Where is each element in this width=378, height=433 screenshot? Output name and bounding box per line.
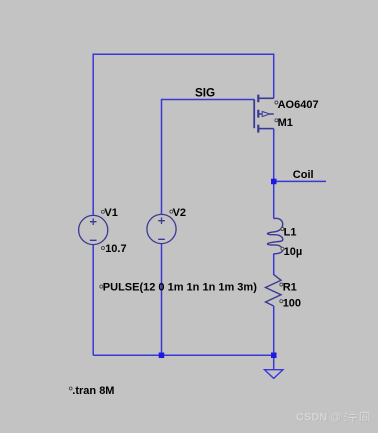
svg-text:100: 100 (283, 298, 301, 310)
wire bottom rail (93, 354, 274, 356)
inductor L1 (267, 218, 282, 253)
ground (265, 370, 283, 379)
channel segment top (257, 95, 259, 103)
svg-text:Coil: Coil (293, 169, 314, 181)
svg-text:PULSE(12 0 1m 1n 1n 1m 3m): PULSE(12 0 1m 1n 1n 1m 3m) (103, 282, 257, 294)
channel segment bottom (257, 125, 259, 133)
label R1 (280, 281, 297, 293)
label V2 value PULSE (100, 282, 257, 294)
voltage source V1 (79, 215, 108, 244)
wire ground stem (273, 355, 275, 369)
channel segment middle (257, 110, 259, 118)
wire left vertical upper (92, 54, 94, 216)
svg-text:L1: L1 (284, 226, 297, 238)
body finger with arrow (258, 113, 273, 115)
node ground junction (271, 353, 277, 359)
transistor M1 (PMOS AO6407) (254, 95, 274, 133)
wire right vertical to drain (273, 54, 275, 99)
wire V2 vertical lower (161, 244, 163, 356)
label AO6407 (275, 99, 319, 111)
wire left vertical lower (92, 245, 94, 356)
label M1 (275, 117, 293, 129)
watermark CSDN (296, 412, 342, 425)
wire V2 vertical upper (161, 99, 163, 215)
voltage source V2 (147, 214, 176, 243)
label V2 (170, 207, 186, 219)
svg-text:R1: R1 (283, 281, 297, 293)
drain finger (258, 97, 273, 99)
node Coil junction (271, 179, 277, 185)
label L1 value 10u (281, 246, 302, 258)
label R1 value 100 (280, 298, 301, 310)
svg-text:SIG: SIG (195, 86, 215, 99)
svg-text:10µ: 10µ (284, 246, 303, 258)
resistor R1 (266, 275, 282, 306)
source finger (258, 128, 273, 130)
svg-text:V1: V1 (104, 207, 117, 219)
svg-text:V2: V2 (173, 207, 186, 219)
svg-text:10.7: 10.7 (105, 243, 126, 255)
svg-text:M1: M1 (278, 117, 293, 129)
label V1 (101, 207, 117, 219)
gate bar (253, 99, 255, 128)
spice directive .tran 8M (69, 385, 114, 397)
label V1 value 10.7 (102, 243, 127, 255)
wire Coil horizontal (274, 180, 326, 182)
wire top rail (93, 53, 274, 55)
wire resistor to bottom rail (273, 306, 275, 355)
wire source to coil node (273, 129, 275, 219)
wire SIG rail (162, 99, 255, 101)
wire inductor to resistor (273, 254, 275, 276)
svg-text:AO6407: AO6407 (278, 99, 319, 111)
node V2 bottom junction (159, 353, 165, 359)
label L1 (281, 226, 297, 238)
svg-text:CSDN @: CSDN @ (296, 412, 341, 424)
svg-text:.tran 8M: .tran 8M (72, 385, 114, 397)
